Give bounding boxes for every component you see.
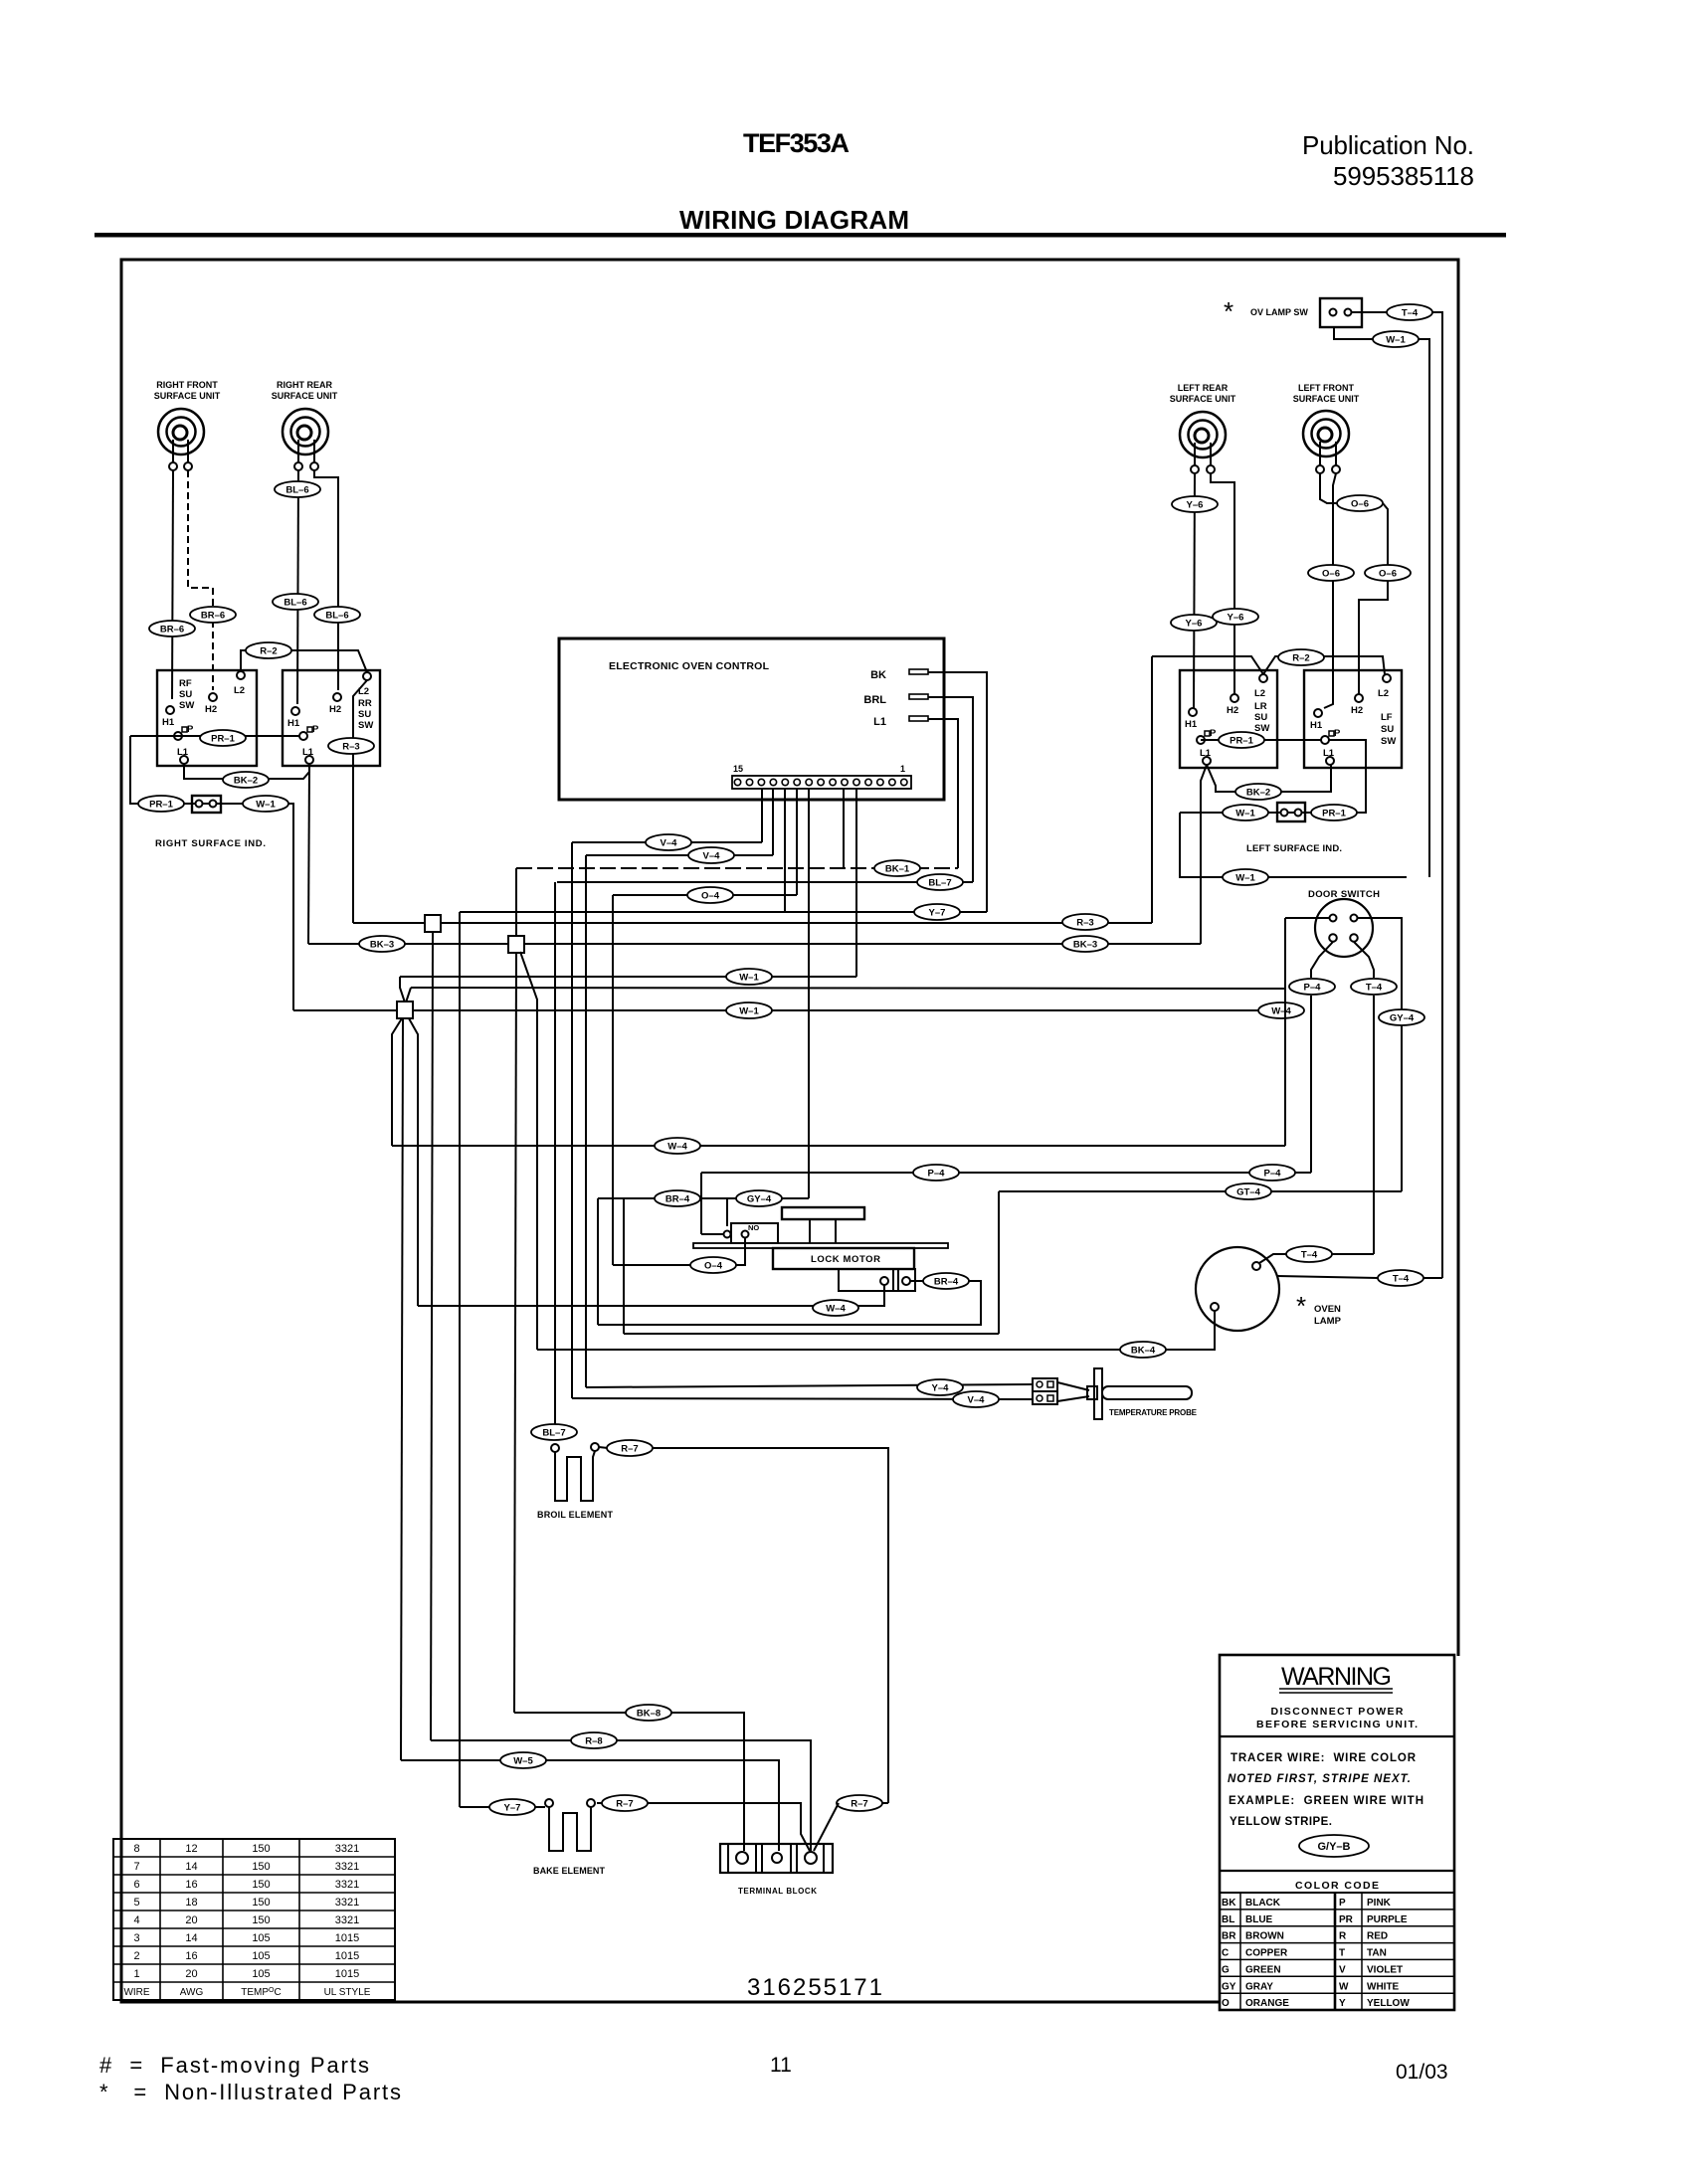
wire T-4 b to bus	[1423, 1277, 1442, 1279]
left surface indicator lamp	[1277, 803, 1305, 821]
EOC terminal strip	[732, 764, 911, 789]
svg-text:RIGHT FRONT: RIGHT FRONT	[156, 380, 218, 390]
svg-text:BK–2: BK–2	[234, 776, 258, 787]
wire BRL tail	[928, 697, 973, 882]
svg-text:VIOLET: VIOLET	[1367, 1964, 1403, 1975]
svg-text:BL–7: BL–7	[542, 1428, 565, 1439]
wire label PR-1	[1311, 805, 1357, 820]
svg-text:14: 14	[185, 1932, 197, 1944]
wire label BK-2	[1235, 784, 1281, 800]
svg-text:L1: L1	[177, 747, 189, 758]
svg-text:OV LAMP SW: OV LAMP SW	[1250, 307, 1308, 317]
wire PR-1 pilot line right	[1201, 739, 1321, 741]
wire V-4 row 1	[572, 841, 762, 843]
svg-text:LF: LF	[1381, 712, 1393, 723]
svg-text:LR: LR	[1254, 701, 1267, 712]
wire W-4 row mid	[392, 1145, 1285, 1147]
svg-text:BAKE ELEMENT: BAKE ELEMENT	[533, 1866, 606, 1876]
wire T-4 from lamp switch	[1351, 311, 1387, 313]
wire label BK-3	[1062, 936, 1108, 952]
svg-text:EXAMPLE: GREEN WIRE WITH: EXAMPLE: GREEN WIRE WITH	[1229, 1795, 1423, 1807]
wire label T-4	[1378, 1270, 1423, 1286]
wire label GY-4	[1379, 1009, 1424, 1025]
wire gauge table	[113, 1839, 395, 2000]
svg-text:P–4: P–4	[1304, 983, 1322, 994]
wire GT-4 row	[999, 1190, 1402, 1192]
wire R-7 broil lead	[599, 1447, 608, 1448]
svg-text:NOTED FIRST, STRIPE NEXT.: NOTED FIRST, STRIPE NEXT.	[1228, 1773, 1411, 1785]
wire label Y-6	[1213, 609, 1258, 625]
wire label W-1	[1223, 805, 1268, 820]
svg-text:ELECTRONIC OVEN CONTROL: ELECTRONIC OVEN CONTROL	[609, 660, 770, 672]
warning box	[1220, 1655, 1454, 2010]
svg-text:L1: L1	[873, 716, 886, 728]
svg-text:DISCONNECT POWER: DISCONNECT POWER	[1271, 1706, 1404, 1718]
wire W-1 row 994	[411, 988, 1285, 989]
svg-text:P–4: P–4	[928, 1169, 946, 1180]
wire P-4 drop	[1310, 996, 1312, 1173]
junction square J3	[397, 1001, 413, 1018]
wire label BR-4	[655, 1190, 700, 1206]
door switch	[1308, 889, 1380, 957]
svg-text:T–4: T–4	[1366, 983, 1383, 994]
svg-text:SURFACE UNIT: SURFACE UNIT	[1170, 394, 1236, 404]
wire L1 tail	[928, 719, 958, 868]
wire door switch T-4 lead	[1354, 942, 1374, 978]
svg-text:* = Non-Illustrated Parts: * = Non-Illustrated Parts	[99, 2080, 401, 2104]
wire LR H2 lead	[1211, 473, 1234, 694]
svg-text:SW: SW	[1381, 736, 1396, 747]
wire label V-4	[953, 1391, 999, 1407]
wire V-4 probe row 2	[572, 1398, 1033, 1399]
svg-text:Publication No.: Publication No.	[1302, 130, 1474, 160]
svg-text:R–2: R–2	[1292, 653, 1309, 664]
svg-text:YELLOW STRIPE.: YELLOW STRIPE.	[1230, 1816, 1332, 1828]
svg-text:R: R	[1339, 1931, 1347, 1942]
wire label O-4	[687, 887, 733, 903]
svg-text:11: 11	[770, 2054, 792, 2077]
svg-text:OVEN: OVEN	[1314, 1304, 1341, 1315]
svg-text:SW: SW	[179, 700, 194, 711]
wire label R-3	[328, 738, 374, 754]
svg-text:Y–6: Y–6	[1228, 613, 1244, 624]
wire W-1 row 1 to J3	[400, 977, 405, 1002]
svg-text:V–4: V–4	[968, 1395, 986, 1406]
wire label BR-6	[190, 607, 236, 623]
switch RF SU SW	[157, 670, 257, 766]
wire T-4 link to riser	[1332, 1253, 1374, 1255]
svg-text:RF: RF	[179, 678, 192, 689]
wire W-1 row 1	[400, 976, 856, 978]
wire tie riser 627	[623, 1198, 625, 1334]
svg-text:BK: BK	[1222, 1898, 1236, 1909]
svg-text:PR–1: PR–1	[149, 800, 173, 811]
wire R-3 from RR L2	[353, 680, 367, 923]
svg-text:W–1: W–1	[739, 1006, 759, 1017]
wire label R-7	[602, 1795, 648, 1811]
wire GT-4 riser 1004	[998, 1191, 1000, 1334]
wire R-7 right link	[881, 1802, 888, 1804]
svg-text:WIRE: WIRE	[123, 1987, 149, 1998]
svg-text:LEFT REAR: LEFT REAR	[1178, 383, 1229, 393]
wire label BK-3	[359, 936, 405, 952]
svg-text:H1: H1	[1185, 719, 1198, 730]
wire EOC drop 12	[855, 789, 857, 977]
right front surface unit heater coil	[158, 409, 204, 470]
electronic oven control	[559, 638, 944, 800]
wire label T-4	[1387, 304, 1432, 320]
wire EOC drop 4	[772, 789, 774, 855]
wire BK-4 drop	[520, 952, 537, 1350]
wire BR-4 return	[598, 1281, 981, 1325]
wire label Y-6	[1171, 615, 1217, 631]
wire T-4 drop	[1373, 996, 1375, 1254]
wire BK-2 link right	[1207, 765, 1331, 792]
svg-text:P: P	[1210, 728, 1217, 739]
svg-text:W–1: W–1	[1235, 873, 1255, 884]
wire label Y-4	[917, 1379, 963, 1395]
svg-text:BK–1: BK–1	[885, 864, 910, 875]
svg-text:COLOR CODE: COLOR CODE	[1295, 1880, 1379, 1892]
svg-text:O–6: O–6	[1379, 569, 1397, 580]
svg-text:T–4: T–4	[1393, 1274, 1410, 1285]
wire J2 riser	[515, 868, 517, 936]
svg-text:PURPLE: PURPLE	[1367, 1914, 1408, 1925]
wire label R-3	[1062, 914, 1108, 930]
svg-text:V–4: V–4	[703, 851, 721, 862]
junction square J1	[425, 915, 441, 932]
wire label BL-7	[531, 1424, 577, 1440]
wire R-3 riser right	[1151, 656, 1153, 923]
svg-text:P: P	[1339, 1898, 1346, 1909]
svg-text:W–1: W–1	[1235, 809, 1255, 819]
svg-text:14: 14	[185, 1861, 197, 1873]
svg-text:BK–4: BK–4	[1131, 1346, 1156, 1357]
wire label PR-1	[138, 796, 184, 812]
svg-text:G/Y–B: G/Y–B	[1317, 1841, 1350, 1853]
svg-text:4: 4	[133, 1914, 139, 1926]
svg-text:TAN: TAN	[1367, 1948, 1387, 1959]
svg-text:*: *	[1224, 296, 1233, 326]
wire RR H2 lead	[314, 470, 338, 690]
wire label P-4	[1249, 1165, 1295, 1181]
svg-text:SU: SU	[1254, 712, 1267, 723]
wire label Y-7	[489, 1799, 535, 1815]
lock motor terminal box	[839, 1269, 915, 1291]
wire PR-1 pilot line left	[130, 735, 299, 737]
svg-text:H2: H2	[1227, 705, 1238, 716]
svg-text:L2: L2	[234, 685, 245, 696]
wire EOC drop 7	[808, 789, 810, 1198]
svg-text:01/03: 01/03	[1396, 2061, 1448, 2084]
svg-text:3321: 3321	[335, 1843, 359, 1855]
svg-text:GT–4: GT–4	[1236, 1187, 1260, 1198]
svg-text:O–4: O–4	[704, 1261, 723, 1272]
wire label BK-2	[223, 772, 269, 788]
wire R-2 right jumper b	[1263, 656, 1385, 674]
wire R-8 drop	[431, 932, 433, 1740]
svg-text:TEF353A: TEF353A	[743, 128, 850, 158]
svg-text:150: 150	[252, 1897, 270, 1909]
svg-text:L1: L1	[1200, 748, 1212, 759]
svg-text:RIGHT REAR: RIGHT REAR	[277, 380, 333, 390]
svg-text:GRAY: GRAY	[1245, 1981, 1273, 1992]
wire label BL-6	[273, 594, 318, 610]
wire BL-7 drop	[554, 882, 556, 1424]
svg-text:BK–8: BK–8	[637, 1709, 661, 1720]
svg-text:H2: H2	[205, 704, 217, 715]
wire Y-7 drop	[459, 912, 461, 1807]
wire cam leg 2	[835, 1219, 837, 1243]
wire lock switch stub riser	[700, 1173, 702, 1234]
wire LF H1 lead	[1324, 473, 1336, 708]
wire label W-1	[1223, 869, 1268, 885]
svg-text:NO: NO	[748, 1223, 759, 1232]
svg-text:16: 16	[185, 1950, 197, 1962]
svg-text:L2: L2	[1254, 688, 1265, 699]
wire BR-4 left leg	[597, 1198, 599, 1325]
wire label V-4	[646, 834, 691, 850]
svg-text:SURFACE UNIT: SURFACE UNIT	[272, 391, 338, 401]
svg-text:150: 150	[252, 1861, 270, 1873]
svg-text:SURFACE UNIT: SURFACE UNIT	[1293, 394, 1360, 404]
svg-text:BR–6: BR–6	[201, 611, 225, 622]
svg-text:R–2: R–2	[260, 646, 277, 657]
wire label R-2	[246, 642, 291, 658]
wire R-3 row	[353, 922, 1152, 924]
lock motor cam bar	[782, 1207, 864, 1219]
svg-text:Y–6: Y–6	[1187, 500, 1204, 511]
wire label O-6	[1308, 565, 1354, 581]
svg-text:Y–6: Y–6	[1186, 619, 1203, 630]
svg-text:3321: 3321	[335, 1897, 359, 1909]
wire BK-4 row	[537, 1311, 1215, 1350]
svg-text:W–5: W–5	[513, 1756, 533, 1767]
wire label W-1	[726, 1002, 772, 1018]
wire R-7 bake row	[597, 1803, 810, 1851]
svg-text:PR–1: PR–1	[1322, 809, 1346, 819]
wire W-1 row 994 diag	[406, 988, 411, 1002]
wire W-1 from lamp switch	[1334, 327, 1373, 339]
svg-text:3: 3	[133, 1932, 139, 1944]
right rear surface unit heater coil	[283, 409, 328, 470]
svg-text:16: 16	[185, 1879, 197, 1891]
left front surface unit heater coil	[1303, 411, 1349, 473]
wire oven lamp T-4 b	[1277, 1276, 1378, 1278]
wire label W-1	[726, 969, 772, 985]
svg-text:SU: SU	[1381, 724, 1394, 735]
junction square J2	[508, 936, 524, 953]
switch LR SU SW	[1180, 670, 1277, 768]
wire label W-4	[813, 1300, 858, 1316]
wire BL-7 row	[557, 881, 973, 883]
wire label BR-4	[923, 1273, 969, 1289]
svg-text:TRACER WIRE: WIRE COLOR: TRACER WIRE: WIRE COLOR	[1231, 1752, 1417, 1764]
svg-text:3321: 3321	[335, 1861, 359, 1873]
svg-text:PR–1: PR–1	[211, 734, 235, 745]
svg-text:BR: BR	[1222, 1931, 1236, 1942]
svg-text:R–7: R–7	[616, 1799, 633, 1810]
svg-text:18: 18	[185, 1897, 197, 1909]
wire GY-4 tap to lock switch	[726, 1198, 728, 1226]
lock switch NO	[724, 1223, 779, 1243]
svg-text:TEMPERATURE PROBE: TEMPERATURE PROBE	[1109, 1408, 1198, 1417]
wire label W-5	[500, 1752, 546, 1768]
wire indicator feed left	[130, 736, 139, 804]
svg-text:BRL: BRL	[863, 694, 886, 706]
wire BK-1 row	[516, 867, 958, 869]
broil element	[537, 1443, 614, 1520]
wire V-4 drop b	[585, 855, 587, 1387]
switch RR SU SW	[283, 670, 380, 766]
svg-text:H2: H2	[1351, 705, 1363, 716]
svg-text:P: P	[1334, 728, 1341, 739]
svg-text:L1: L1	[302, 747, 314, 758]
wire LF H2 lead	[1320, 473, 1388, 694]
svg-text:W: W	[1339, 1981, 1349, 1992]
wire label PR-1	[200, 730, 246, 746]
wire V-4 probe row 1	[586, 1384, 1033, 1387]
wire door switch GY-4 lead	[1358, 918, 1402, 1191]
wire O-4 row	[613, 894, 797, 896]
svg-text:T–4: T–4	[1402, 308, 1419, 319]
svg-text:# = Fast-moving Parts: # = Fast-moving Parts	[99, 2053, 369, 2078]
wire BK-3 riser to LR L1	[1201, 765, 1207, 944]
svg-text:105: 105	[252, 1932, 270, 1944]
wire door switch P-4 lead	[1311, 942, 1333, 978]
svg-text:G: G	[1222, 1964, 1230, 1975]
wire RR H1 lead	[297, 470, 298, 704]
wire label O-4	[690, 1257, 736, 1273]
svg-text:W–1: W–1	[256, 800, 276, 811]
svg-text:5: 5	[133, 1897, 139, 1909]
svg-text:WIRING DIAGRAM: WIRING DIAGRAM	[679, 205, 909, 235]
svg-text:O–6: O–6	[1351, 499, 1369, 510]
lock motor body	[773, 1248, 914, 1269]
wire label W-4	[655, 1138, 700, 1154]
svg-text:YELLOW: YELLOW	[1367, 1998, 1410, 2009]
tracer example label G/Y-B	[1299, 1835, 1369, 1857]
wire label W-1	[1373, 331, 1419, 347]
svg-text:H1: H1	[162, 717, 175, 728]
wire label Y-6	[1172, 496, 1218, 512]
svg-text:105: 105	[252, 1950, 270, 1962]
wire BK-8 row	[514, 1713, 744, 1851]
wire V-4 row 2	[586, 854, 773, 856]
svg-text:BR–4: BR–4	[665, 1194, 690, 1205]
wire label PR-1	[1219, 732, 1264, 748]
wire W-4 door-switch riser	[1284, 918, 1286, 1146]
wire BR-4 GY-4 row	[598, 1197, 809, 1199]
wire R-2 right jumper	[1152, 656, 1263, 674]
svg-text:150: 150	[252, 1914, 270, 1926]
svg-text:R–7: R–7	[621, 1444, 638, 1455]
svg-text:L2: L2	[1378, 688, 1389, 699]
wire label T-4	[1286, 1246, 1332, 1262]
svg-text:BROWN: BROWN	[1245, 1931, 1284, 1942]
svg-text:BK–3: BK–3	[1073, 940, 1097, 951]
wire R-7 right diagonal	[814, 1803, 839, 1851]
svg-text:T–4: T–4	[1301, 1250, 1318, 1261]
wire label BK-8	[626, 1705, 671, 1721]
svg-text:8: 8	[133, 1843, 139, 1855]
svg-text:PR–1: PR–1	[1230, 736, 1253, 747]
wire BK-3 row	[308, 943, 1201, 945]
svg-text:P: P	[312, 724, 319, 735]
left rear surface unit heater coil	[1180, 412, 1226, 473]
wire label T-4	[1351, 979, 1397, 995]
svg-text:*: *	[1296, 1291, 1306, 1321]
wire EOC drop 6	[796, 789, 798, 895]
wire label Y-7	[914, 904, 960, 920]
wire label GY-4	[736, 1190, 782, 1206]
wire indicator row right	[1180, 740, 1366, 813]
svg-text:SW: SW	[1254, 723, 1269, 734]
svg-text:GY–4: GY–4	[747, 1194, 772, 1205]
wire label GT-4	[1226, 1183, 1271, 1199]
heading underline rule	[95, 233, 1506, 238]
svg-text:BEFORE SERVICING UNIT.: BEFORE SERVICING UNIT.	[1256, 1719, 1418, 1730]
svg-text:20: 20	[185, 1968, 197, 1980]
svg-text:V: V	[1339, 1964, 1346, 1975]
svg-text:W–4: W–4	[1271, 1006, 1291, 1017]
svg-text:R–3: R–3	[1076, 918, 1093, 929]
svg-text:LOCK MOTOR: LOCK MOTOR	[811, 1254, 880, 1265]
wire cam leg 1	[809, 1219, 811, 1243]
svg-text:W–1: W–1	[739, 973, 759, 984]
svg-text:BR–4: BR–4	[934, 1277, 959, 1288]
svg-text:H1: H1	[287, 718, 300, 729]
svg-text:ORANGE: ORANGE	[1245, 1998, 1289, 2009]
svg-text:T: T	[1339, 1948, 1345, 1959]
wire V-4 drop a	[571, 842, 573, 1398]
color code table	[1220, 1880, 1454, 2010]
wire W-4 drop b	[409, 1018, 418, 1306]
wire W-5 row	[401, 1760, 779, 1851]
svg-text:W–4: W–4	[667, 1142, 687, 1153]
wire W-1 to right bus	[1419, 339, 1429, 877]
svg-text:Y–7: Y–7	[929, 908, 946, 919]
svg-text:V–4: V–4	[661, 838, 678, 849]
svg-text:5995385118: 5995385118	[1333, 161, 1474, 191]
svg-text:20: 20	[185, 1914, 197, 1926]
svg-text:WARNING: WARNING	[1281, 1663, 1393, 1691]
wire W-5 drop	[401, 1018, 403, 1760]
svg-text:LEFT SURFACE IND.: LEFT SURFACE IND.	[1246, 843, 1342, 854]
svg-text:BL–6: BL–6	[285, 485, 308, 496]
svg-text:150: 150	[252, 1843, 270, 1855]
svg-text:R–3: R–3	[342, 742, 359, 753]
wire label BK-1	[874, 860, 920, 876]
wire EOC drop 3	[761, 789, 763, 842]
svg-text:BL–7: BL–7	[928, 878, 951, 889]
svg-text:BL–6: BL–6	[284, 598, 306, 609]
svg-text:BR–6: BR–6	[160, 625, 184, 636]
svg-text:P–4: P–4	[1264, 1169, 1282, 1180]
svg-text:P: P	[187, 724, 194, 735]
wire BR-4 to oval	[910, 1280, 923, 1282]
svg-text:PR: PR	[1339, 1914, 1354, 1925]
wire EOC drop 11	[843, 789, 845, 868]
wire label BL-6	[275, 481, 320, 497]
wire label O-6	[1365, 565, 1411, 581]
wire BK-8 drop	[514, 952, 516, 1713]
svg-text:BK: BK	[870, 669, 886, 681]
svg-text:1: 1	[133, 1968, 139, 1980]
svg-text:SW: SW	[358, 720, 373, 731]
svg-text:BK–3: BK–3	[370, 940, 394, 951]
svg-text:6: 6	[133, 1879, 139, 1891]
